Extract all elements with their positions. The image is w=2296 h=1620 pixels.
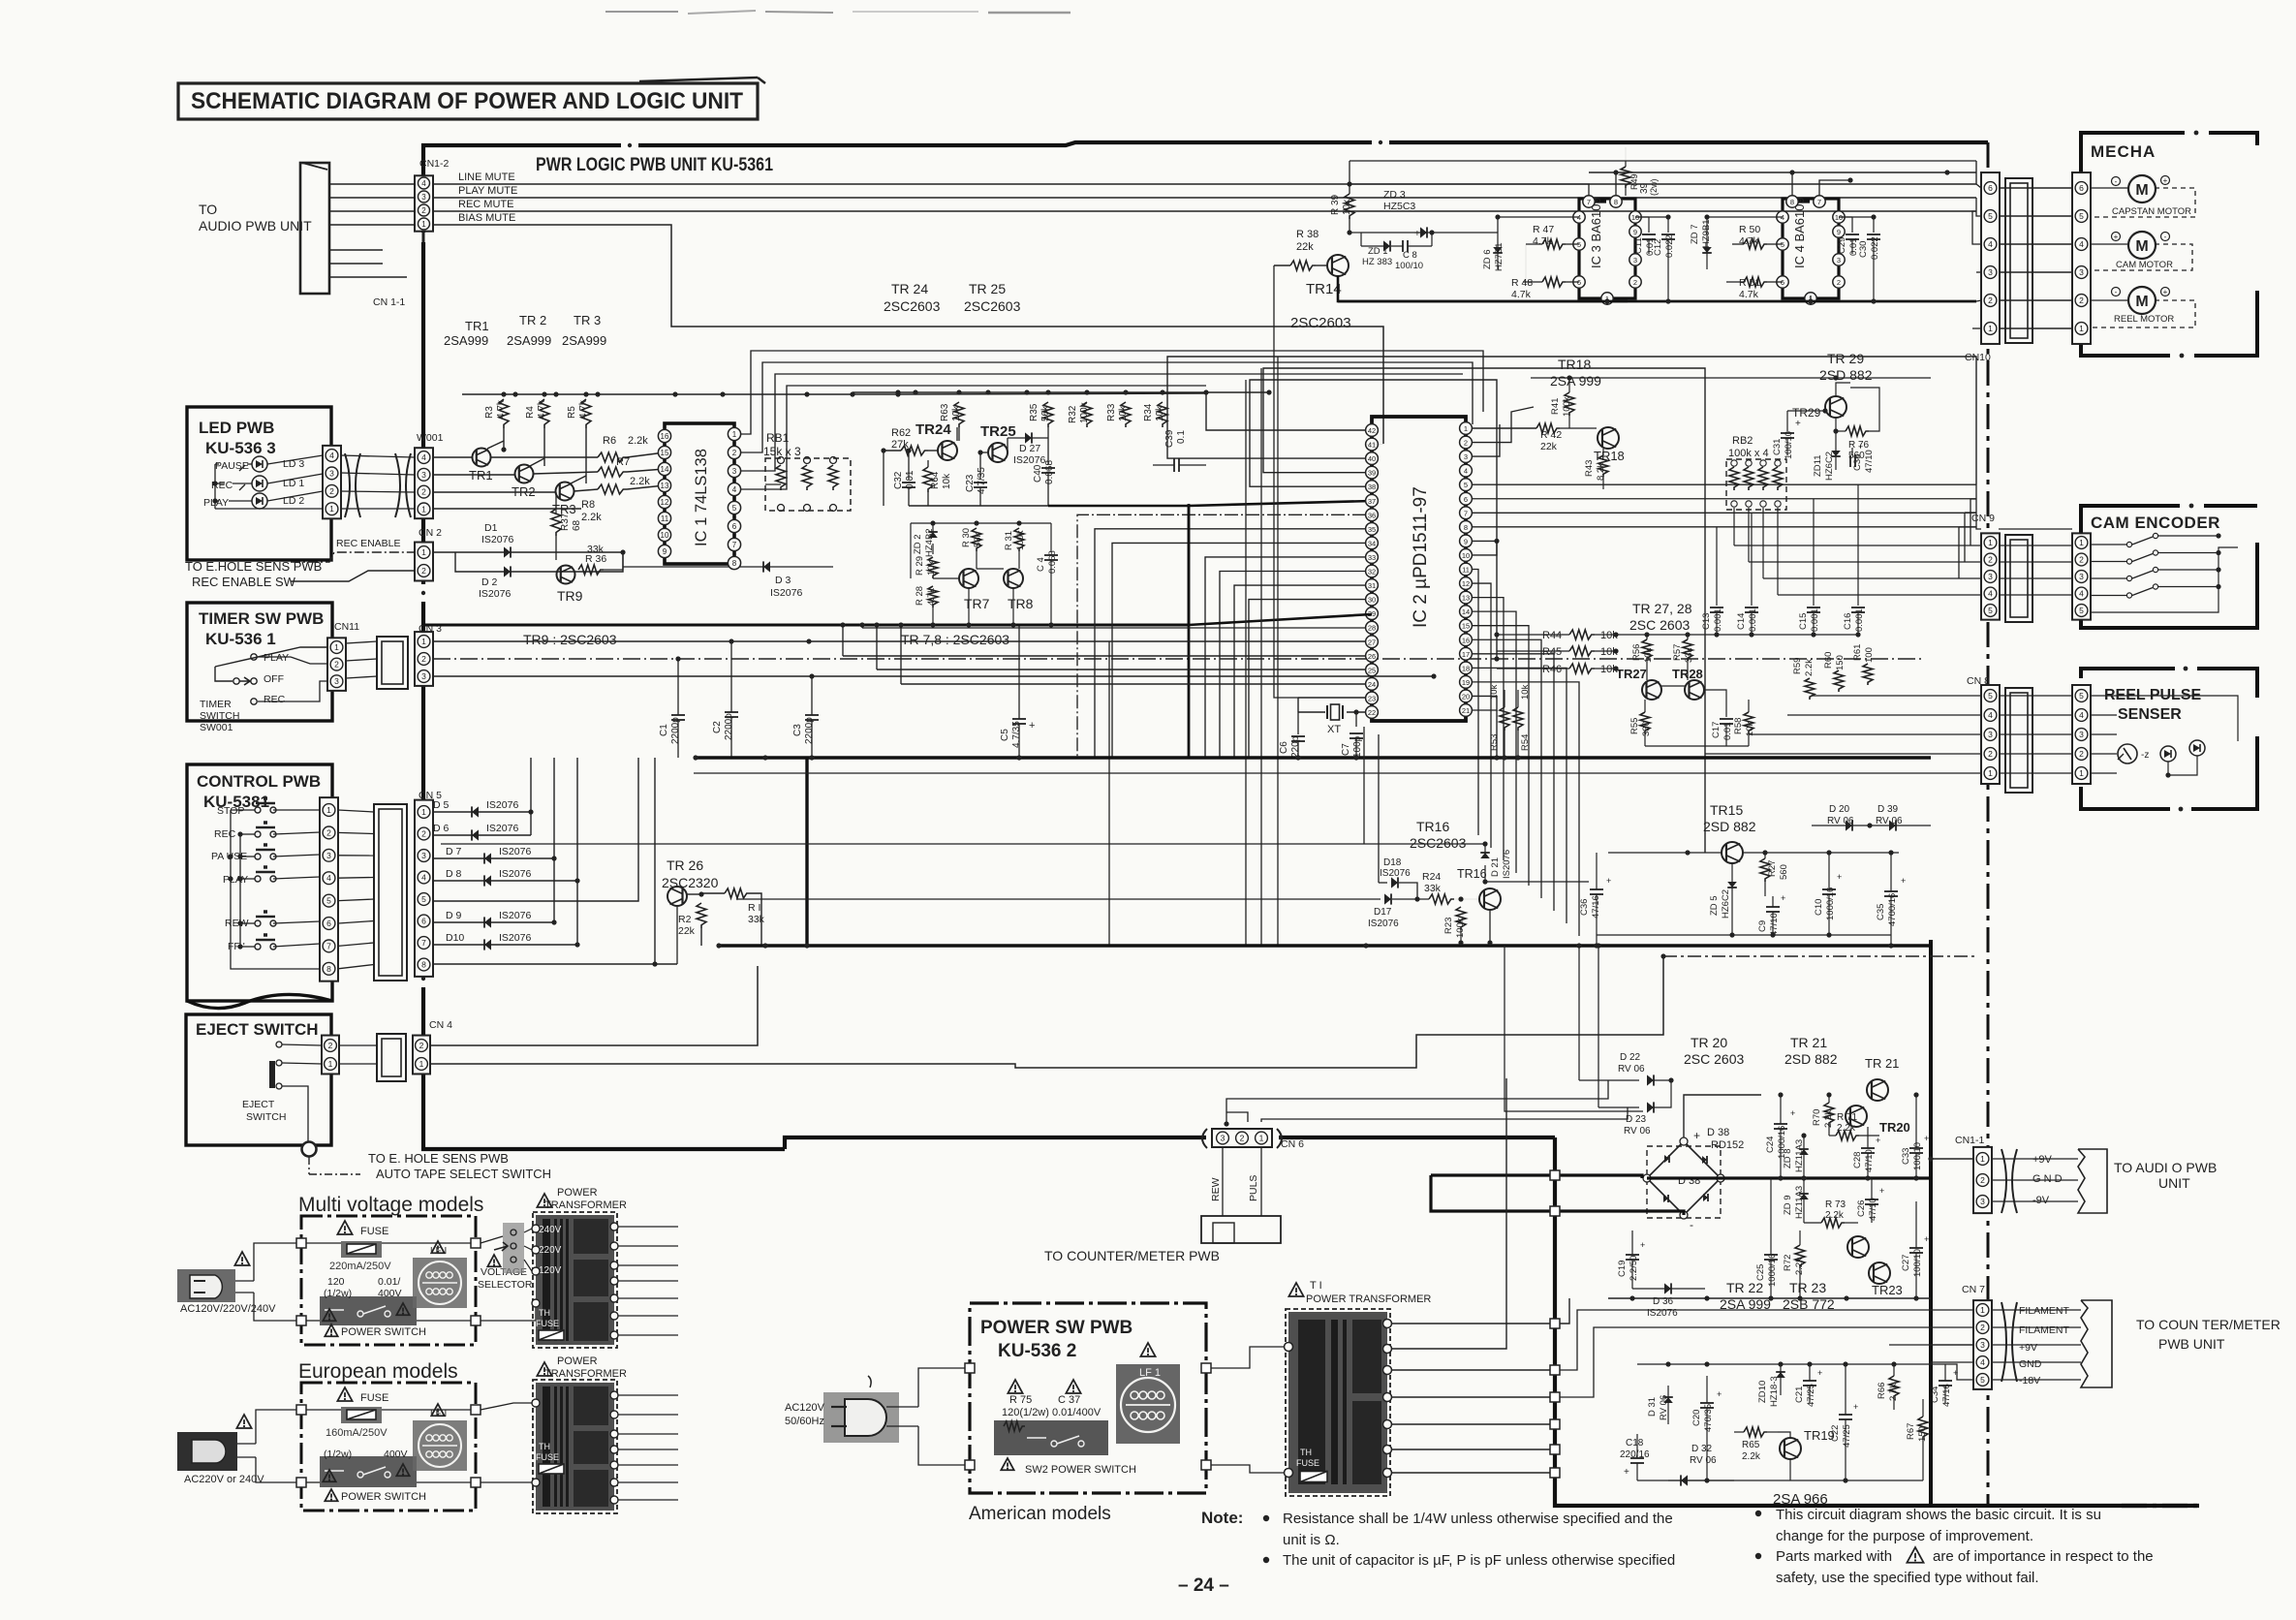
svg-text:D 3: D 3 — [775, 575, 791, 586]
resistor R4 — [540, 399, 549, 428]
transistor TR16 — [1479, 888, 1501, 910]
svg-text:(1/2w): (1/2w) — [324, 1449, 352, 1460]
cam common — [2091, 547, 2238, 612]
svg-text:9: 9 — [1837, 228, 1841, 236]
svg-text:TO: TO — [199, 202, 217, 217]
diode D3 — [763, 561, 770, 572]
svg-text:32: 32 — [1368, 568, 1376, 576]
svg-text:18: 18 — [1462, 664, 1470, 672]
svg-text:D 5: D 5 — [433, 799, 450, 811]
diode D21 — [1484, 844, 1486, 853]
svg-text:LED PWB: LED PWB — [199, 419, 274, 437]
svg-text:R59: R59 — [1792, 658, 1803, 674]
svg-text:5: 5 — [326, 896, 331, 906]
svg-text:8: 8 — [732, 559, 737, 568]
svg-text:TR 29: TR 29 — [1827, 351, 1864, 366]
svg-text:2.2k: 2.2k — [628, 435, 648, 447]
svg-text:25: 25 — [1368, 666, 1376, 674]
svg-text:10k: 10k — [1520, 684, 1531, 700]
svg-text:1: 1 — [326, 805, 331, 815]
wire pin24 — [901, 683, 1366, 685]
svg-text:C31: C31 — [1772, 439, 1783, 455]
svg-text:change for the purpose of impr: change for the purpose of improvement. — [1776, 1528, 2033, 1544]
svg-text:4.7/35: 4.7/35 — [977, 467, 987, 494]
TIMER SW PWB board — [187, 603, 332, 721]
svg-text:2SA999: 2SA999 — [507, 333, 551, 348]
svg-text:6: 6 — [732, 522, 737, 531]
svg-text:D 6: D 6 — [433, 823, 450, 834]
svg-text:3: 3 — [1980, 1197, 1985, 1206]
svg-text:M: M — [2135, 182, 2148, 199]
staircase pins 36-34 — [1077, 514, 1366, 758]
svg-text:1: 1 — [421, 637, 426, 646]
svg-text:MECHA: MECHA — [2091, 142, 2156, 161]
svg-text:150: 150 — [1835, 655, 1846, 670]
diodes D5-D10 — [433, 811, 479, 813]
AC plug euro — [177, 1432, 237, 1471]
svg-text:4: 4 — [732, 485, 737, 494]
svg-text:1: 1 — [1988, 538, 1993, 547]
svg-text:R72: R72 — [1783, 1255, 1793, 1271]
svg-text:C1: C1 — [659, 724, 669, 736]
svg-text:CN 1-1: CN 1-1 — [373, 296, 405, 308]
svg-text:10k: 10k — [1342, 199, 1352, 215]
wire cn3-3 — [433, 675, 1434, 677]
svg-text:M: M — [2135, 238, 2148, 255]
svg-text:100/10: 100/10 — [1395, 261, 1423, 271]
reel wires — [2091, 695, 2117, 697]
resistor R67 — [1918, 1417, 1928, 1440]
svg-text:T I: T I — [1310, 1280, 1322, 1292]
svg-text:C23: C23 — [965, 474, 976, 492]
svg-text:0.01/: 0.01/ — [378, 1276, 400, 1288]
capacitor C28 — [1861, 1147, 1875, 1149]
svg-text:2.2k: 2.2k — [1742, 1451, 1761, 1462]
svg-text:C30: C30 — [1858, 241, 1869, 258]
svg-text:UNIT: UNIT — [2158, 1175, 2190, 1191]
svg-text:5: 5 — [1988, 691, 1993, 701]
svg-text:R8: R8 — [581, 499, 595, 511]
capacitor C38 — [1851, 448, 1853, 455]
svg-text:RV 06: RV 06 — [1690, 1455, 1717, 1466]
wires timer — [215, 647, 327, 667]
resistor R61 — [1863, 664, 1873, 685]
svg-text:C19: C19 — [1617, 1261, 1628, 1277]
svg-text:RB2: RB2 — [1732, 435, 1753, 447]
svg-text:D 23: D 23 — [1626, 1114, 1647, 1125]
wire bias mute — [329, 224, 415, 226]
svg-text:100p: 100p — [1352, 735, 1363, 758]
capacitor C23 — [979, 462, 981, 480]
capacitor C21 — [1803, 1380, 1816, 1382]
resistor R59 — [1805, 678, 1815, 700]
svg-text:15k x 3: 15k x 3 — [763, 445, 801, 458]
wires rb2 down — [1733, 508, 1735, 545]
svg-text:R63: R63 — [940, 403, 950, 421]
svg-text:36: 36 — [1368, 511, 1376, 519]
wire pin38 — [1250, 380, 1497, 659]
svg-text:120V: 120V — [539, 1265, 562, 1276]
svg-text:FUSE: FUSE — [536, 1319, 559, 1328]
svg-text:IS2076: IS2076 — [1502, 850, 1512, 879]
svg-text:1: 1 — [421, 547, 426, 557]
svg-text:150: 150 — [1917, 1426, 1928, 1442]
svg-text:C24: C24 — [1765, 1137, 1776, 1153]
svg-text:HZ 383: HZ 383 — [1362, 257, 1392, 267]
LED LD2 — [252, 493, 267, 509]
scan artifact top — [605, 11, 678, 13]
svg-text:-: - — [2115, 177, 2118, 186]
svg-text:33: 33 — [1368, 553, 1376, 562]
svg-text:4: 4 — [1988, 710, 1993, 720]
photo transistor — [2118, 744, 2137, 763]
svg-text:TR1: TR1 — [465, 319, 489, 333]
svg-text:D 9: D 9 — [446, 910, 462, 921]
resistor R76 — [1846, 426, 1869, 436]
svg-text:4.7k: 4.7k — [537, 399, 547, 419]
svg-text:ZD 3: ZD 3 — [1383, 189, 1406, 201]
wires led to conn — [247, 463, 252, 465]
svg-text:3: 3 — [2079, 572, 2084, 581]
svg-text:+: + — [1795, 419, 1801, 429]
svg-text:5: 5 — [732, 504, 737, 513]
wire pin27 — [809, 640, 1366, 642]
svg-text:C20: C20 — [1691, 1410, 1702, 1426]
svg-text:2: 2 — [2079, 296, 2084, 305]
svg-text:HZ6C2: HZ6C2 — [1721, 889, 1731, 919]
zener ZD9 — [1803, 1178, 1805, 1223]
cable stubs — [329, 249, 383, 251]
multi box — [301, 1216, 476, 1345]
svg-text:D 27: D 27 — [1019, 443, 1040, 454]
svg-text:TR7: TR7 — [964, 596, 990, 611]
wire pin41 — [1366, 444, 1383, 446]
svg-text:C10: C10 — [1814, 899, 1824, 916]
svg-text:CN 7: CN 7 — [1962, 1284, 1985, 1295]
svg-text:1: 1 — [1980, 1305, 1985, 1315]
svg-text:+: + — [1693, 1129, 1700, 1142]
svg-text:330: 330 — [1641, 721, 1652, 736]
mate conn CN9 — [2005, 535, 2032, 622]
resistor R39 — [1345, 194, 1354, 219]
svg-text:IC 1 74LS138: IC 1 74LS138 — [693, 449, 710, 546]
svg-text:+: + — [1924, 1234, 1929, 1244]
svg-text:3: 3 — [326, 851, 331, 860]
fuse euro — [337, 1387, 352, 1401]
svg-text:2: 2 — [1464, 439, 1468, 448]
svg-text:AUTO TAPE SELECT SWITCH: AUTO TAPE SELECT SWITCH — [376, 1167, 551, 1181]
svg-text:ZD 2: ZD 2 — [913, 534, 923, 554]
svg-text:ZD 6: ZD 6 — [1482, 249, 1493, 269]
transformer T1 — [1288, 1283, 1303, 1296]
svg-text:REC: REC — [214, 828, 236, 840]
svg-text:120(1/2w): 120(1/2w) — [1002, 1407, 1049, 1418]
svg-text:PULS: PULS — [1248, 1175, 1259, 1201]
IC IC 4 BA6109 — [1792, 200, 1810, 202]
svg-text:R43: R43 — [1584, 460, 1595, 477]
wires mute to ic area — [1975, 183, 1977, 185]
svg-text:5: 5 — [1464, 481, 1468, 489]
svg-text:R4: R4 — [525, 406, 536, 419]
resistor R53 — [1500, 707, 1509, 731]
svg-text:TR 21: TR 21 — [1790, 1035, 1827, 1050]
power feed thick — [1431, 1175, 1642, 1178]
resistor R2 — [697, 903, 706, 928]
resistor R60 — [1834, 670, 1844, 692]
svg-text:+: + — [1790, 1108, 1795, 1118]
svg-text:2: 2 — [419, 1041, 424, 1050]
svg-text:2: 2 — [1980, 1323, 1985, 1332]
svg-text:C15: C15 — [1798, 613, 1809, 630]
capacitor C32 — [908, 461, 910, 480]
LF1 american — [1116, 1364, 1180, 1444]
svg-text:C21: C21 — [1794, 1386, 1805, 1403]
resistor R28 — [928, 586, 938, 607]
wires cn1-1 — [1992, 1158, 2078, 1160]
svg-text:-9V: -9V — [2032, 1195, 2050, 1206]
transistor TR23b — [1869, 1262, 1890, 1284]
svg-text:D 2: D 2 — [481, 576, 498, 588]
svg-text:240V: 240V — [539, 1225, 562, 1235]
transistor TR25 — [988, 443, 1008, 462]
resistor R34 — [1158, 402, 1167, 427]
svg-text:C6: C6 — [1279, 741, 1289, 754]
euro box — [301, 1383, 476, 1511]
svg-text:AUDIO PWB UNIT: AUDIO PWB UNIT — [199, 218, 312, 234]
svg-text:56k: 56k — [1040, 405, 1051, 421]
svg-text:21: 21 — [1462, 706, 1470, 715]
svg-text:100k: 100k — [1015, 530, 1026, 550]
transistor TR3 — [556, 483, 574, 501]
svg-text:100/10: 100/10 — [1912, 1142, 1923, 1170]
svg-text:TH: TH — [1300, 1448, 1312, 1457]
svg-text:IS2076: IS2076 — [481, 534, 513, 545]
LED PWB board — [187, 407, 331, 560]
svg-text:1: 1 — [2079, 768, 2084, 778]
wire cn4-1 — [430, 956, 1663, 1068]
svg-text:TO COUN TER/METER: TO COUN TER/METER — [2136, 1317, 2280, 1332]
svg-text:-: - — [1690, 1218, 1693, 1231]
svg-text:+: + — [1606, 876, 1611, 886]
capacitor C9 — [1764, 896, 1766, 909]
svg-text:33k: 33k — [1684, 647, 1694, 663]
svg-text:IC 2 µPD1511-97: IC 2 µPD1511-97 — [1411, 486, 1431, 628]
svg-text:ZD10: ZD10 — [1757, 1381, 1768, 1403]
svg-text:31: 31 — [1368, 581, 1376, 590]
svg-text:2: 2 — [2079, 749, 2084, 759]
diode D31 — [1667, 1386, 1669, 1424]
svg-text:+: + — [1717, 1389, 1722, 1399]
svg-text:2SA999: 2SA999 — [444, 333, 488, 348]
svg-text:1: 1 — [2079, 538, 2084, 547]
svg-text:R 28: R 28 — [915, 586, 925, 606]
svg-text:SWITCH: SWITCH — [246, 1111, 286, 1123]
transistor TR19 — [1780, 1438, 1801, 1459]
svg-text:R66: R66 — [1877, 1383, 1887, 1399]
wire cn5 pin5 — [433, 758, 638, 901]
svg-text:2SC2603: 2SC2603 — [964, 298, 1021, 314]
svg-text:CN1-2: CN1-2 — [419, 158, 450, 170]
svg-text:R 48: R 48 — [1511, 277, 1533, 289]
svg-text:47/10: 47/10 — [1868, 1198, 1878, 1221]
svg-text:R53: R53 — [1489, 734, 1500, 751]
capacitor C13 — [1716, 527, 1718, 606]
svg-text:0.01/400V: 0.01/400V — [1052, 1407, 1101, 1418]
diode D17 — [736, 898, 1381, 900]
capacitor C31 — [1787, 410, 1825, 412]
svg-text:14: 14 — [1462, 607, 1470, 616]
svg-text:1: 1 — [421, 220, 426, 229]
svg-text:40: 40 — [1368, 454, 1376, 463]
transistor TR14 — [1327, 255, 1349, 276]
ic1 riser wires to right — [740, 351, 1483, 434]
svg-text:5: 5 — [2079, 691, 2084, 701]
svg-text:TR9 : 2SC2603: TR9 : 2SC2603 — [523, 632, 617, 647]
svg-text:PLAY: PLAY — [223, 874, 248, 886]
diode D22 — [1578, 946, 1580, 1080]
capacitor C4 — [1050, 523, 1052, 552]
svg-text:SCHEMATIC DIAGRAM OF POWER AND: SCHEMATIC DIAGRAM OF POWER AND LOGIC UNI… — [191, 88, 743, 114]
svg-text:27: 27 — [1368, 638, 1376, 646]
svg-text:C 8: C 8 — [1403, 250, 1417, 261]
capacitor C7 — [1350, 732, 1363, 734]
svg-text:+: + — [1953, 1368, 1958, 1378]
svg-text:R 47: R 47 — [1533, 224, 1554, 235]
svg-text:2SC2603: 2SC2603 — [1290, 315, 1351, 331]
AC plug multi — [177, 1269, 235, 1302]
svg-text:American models: American models — [969, 1504, 1111, 1524]
wire verticals to bus — [530, 758, 532, 835]
svg-text:0.068: 0.068 — [1044, 460, 1055, 484]
wire pin1 — [1472, 427, 1536, 429]
svg-text:(2w): (2w) — [1649, 178, 1659, 196]
resistor R70 — [1824, 1103, 1834, 1126]
wire rec mute — [329, 210, 415, 212]
svg-text:-z: -z — [2141, 750, 2149, 761]
svg-text:0.001: 0.001 — [1810, 608, 1820, 632]
PWR LOGIC PWB UNIT board outline — [423, 142, 1988, 233]
mate conn CN8 — [2005, 688, 2032, 793]
thick bus y976 — [719, 944, 1931, 948]
resistor R3 — [499, 399, 509, 428]
svg-text:-: - — [2164, 233, 2167, 241]
svg-text:33k: 33k — [748, 914, 765, 925]
tr19 rails — [1637, 1363, 1945, 1365]
svg-text:2: 2 — [1988, 296, 1993, 305]
svg-text:TO COUNTER/METER PWB: TO COUNTER/METER PWB — [1044, 1248, 1220, 1263]
capacitor C40 — [1047, 455, 1049, 465]
svg-text:FUSE: FUSE — [360, 1392, 388, 1404]
wire tr29 top — [1836, 383, 1850, 396]
svg-text:R24: R24 — [1422, 871, 1441, 883]
svg-text:13: 13 — [661, 482, 669, 490]
svg-text:TR 20: TR 20 — [1691, 1035, 1727, 1050]
svg-text:8: 8 — [326, 964, 331, 974]
svg-text:TR 23: TR 23 — [1789, 1280, 1826, 1295]
svg-text:4: 4 — [2079, 589, 2084, 599]
svg-text:HZ7B1: HZ7B1 — [1494, 242, 1505, 271]
svg-text:TR 27, 28: TR 27, 28 — [1632, 601, 1692, 616]
diode D23 — [1598, 946, 1599, 1107]
svg-text:7: 7 — [326, 941, 331, 950]
transistor TR22b — [1847, 1236, 1869, 1258]
tr15 bottom rail — [1597, 934, 1891, 936]
svg-text:HZ4B2: HZ4B2 — [924, 528, 935, 557]
resistor R55 — [1640, 712, 1650, 733]
svg-text:TO E.HOLE SENS PWB: TO E.HOLE SENS PWB — [185, 559, 322, 574]
svg-text:7: 7 — [1817, 198, 1821, 206]
svg-text:POWER: POWER — [557, 1355, 598, 1367]
bracket — [2001, 1302, 2006, 1382]
svg-text:2SC2320: 2SC2320 — [662, 875, 719, 890]
MECHA block — [2081, 133, 2185, 184]
svg-text:+: + — [1858, 442, 1863, 452]
svg-text:REW: REW — [1210, 1177, 1222, 1201]
staircase pins 33-30 — [1205, 557, 1366, 758]
svg-text:12: 12 — [661, 498, 669, 507]
svg-text:3: 3 — [1988, 572, 1993, 581]
svg-text:R61: R61 — [1852, 644, 1863, 661]
svg-text:2: 2 — [2079, 555, 2084, 565]
svg-text:2: 2 — [1980, 1175, 1985, 1185]
svg-text:R27: R27 — [1767, 860, 1778, 877]
svg-text:100k x 4: 100k x 4 — [1728, 448, 1769, 459]
torn connector counter — [2081, 1300, 2112, 1387]
svg-text:1: 1 — [419, 1059, 424, 1069]
resistor R41 — [1565, 392, 1574, 416]
svg-text:0.1: 0.1 — [1176, 430, 1187, 444]
svg-text:10k: 10k — [951, 405, 962, 421]
svg-text:2SD 882: 2SD 882 — [1703, 819, 1756, 834]
svg-text:2SA999: 2SA999 — [562, 333, 606, 348]
svg-text:Note:: Note: — [1201, 1509, 1243, 1527]
diode ZD2 — [928, 532, 938, 538]
svg-text:7: 7 — [1464, 509, 1468, 517]
svg-text:POWER: POWER — [557, 1187, 598, 1199]
svg-text:R70: R70 — [1812, 1109, 1822, 1126]
svg-text:D10: D10 — [446, 932, 464, 944]
svg-text:C38: C38 — [1852, 454, 1863, 471]
capacitor C30 — [1873, 217, 1875, 233]
svg-text:220/16: 220/16 — [1620, 1449, 1650, 1460]
svg-text:KU-536 1: KU-536 1 — [205, 630, 276, 648]
svg-text:CN11: CN11 — [334, 621, 359, 633]
svg-text:D17: D17 — [1374, 907, 1392, 918]
mate conn dbl — [377, 1034, 406, 1081]
resistor R63 — [954, 402, 964, 427]
svg-text:TR24: TR24 — [915, 421, 951, 438]
svg-text:2: 2 — [421, 829, 426, 839]
svg-text:IS2076: IS2076 — [770, 587, 802, 599]
to e.hole label — [308, 1157, 310, 1174]
svg-text:OFF: OFF — [264, 673, 284, 685]
resistor R66 — [1889, 1376, 1899, 1399]
svg-text:7: 7 — [421, 938, 426, 948]
svg-text:D18: D18 — [1383, 857, 1402, 868]
svg-text:C 37: C 37 — [1058, 1394, 1080, 1406]
EJECT SWITCH board — [186, 1014, 331, 1145]
svg-text:3: 3 — [1464, 452, 1468, 461]
wire dashdot y987 — [1663, 955, 1976, 957]
transistor TR1 — [473, 449, 491, 467]
svg-text:4: 4 — [421, 452, 426, 462]
svg-text:1: 1 — [421, 807, 426, 817]
capacitor C18 — [1630, 1457, 1644, 1459]
svg-text:C35: C35 — [1876, 904, 1886, 920]
svg-text:BIAS MUTE: BIAS MUTE — [458, 212, 515, 224]
svg-text:SWITCH: SWITCH — [200, 710, 239, 722]
svg-text:400V: 400V — [378, 1288, 402, 1299]
